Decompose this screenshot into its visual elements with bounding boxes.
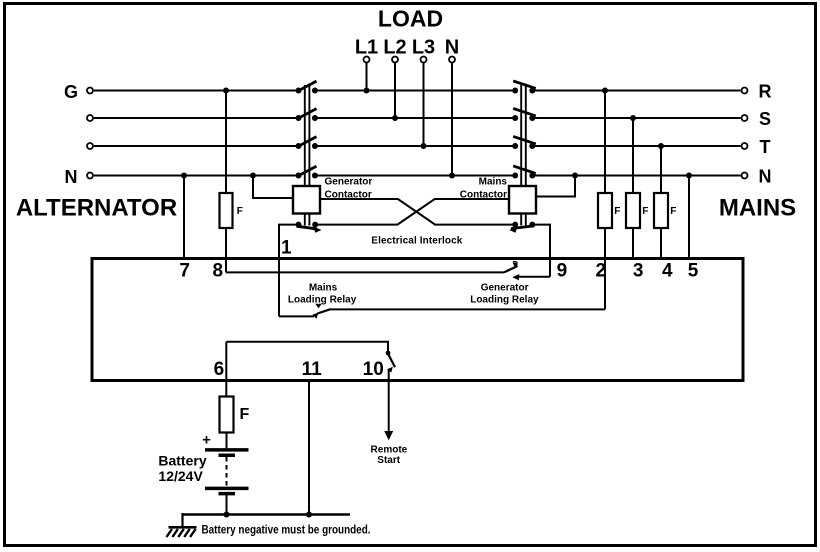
text Remote Start [371,444,408,466]
svg-text:Start: Start [377,455,400,466]
svg-text:T: T [760,137,771,157]
svg-text:Battery: Battery [158,452,206,468]
wire neutral line [94,175,741,177]
svg-text:L3: L3 [412,36,435,58]
terminal 9 wire from mains aux [532,225,567,282]
alternator terminal phase 3 [87,143,93,149]
label Mains Loading Relay [288,282,357,305]
svg-text:6: 6 [214,359,225,380]
svg-text:8: 8 [213,260,224,281]
svg-text:Generator: Generator [481,282,529,293]
svg-text:7: 7 [179,260,190,281]
wire phase T line [94,145,741,147]
svg-text:N: N [759,166,772,186]
label Mains Contactor [460,176,508,200]
node N alternator terminal [65,167,94,187]
svg-text:MAINS: MAINS [719,194,796,221]
label Electrical Interlock [371,235,462,246]
fuse F battery [220,397,250,433]
svg-text:+: + [202,432,211,449]
svg-text:Mains: Mains [479,176,508,187]
svg-text:F: F [670,206,676,217]
svg-text:2: 2 [596,260,607,281]
svg-text:Mains: Mains [309,282,338,293]
mains contactor linkage [521,84,526,226]
generator contactor coil [293,186,320,214]
generator contactor linkage [305,84,310,226]
wire neutral to mains coil [536,173,578,197]
label Battery 12/24V [158,452,206,484]
node S mains terminal [742,109,772,129]
svg-text:Loading Relay: Loading Relay [288,294,357,305]
svg-text:G: G [64,82,78,102]
svg-text:1: 1 [281,237,292,258]
svg-text:N: N [445,36,459,58]
svg-text:Remote: Remote [371,444,408,455]
svg-text:11: 11 [302,359,323,380]
fuse F terminal 2 [596,88,621,310]
node N mains terminal [742,166,772,186]
controller box [92,259,743,381]
node N load [445,36,459,178]
svg-text:N: N [65,167,78,187]
node T mains terminal [742,137,771,157]
node L3 [412,36,435,149]
label Generator Contactor [325,176,373,200]
label Generator Loading Relay [470,282,539,305]
ground symbol [167,513,197,537]
fuse F terminal 4 [654,143,676,281]
text ALTERNATOR [16,194,177,221]
svg-text:F: F [237,206,243,217]
svg-text:F: F [240,406,250,423]
alternator terminal phase 2 [87,115,93,121]
start contact wire terminal 6 to 10 [226,342,395,373]
node G alternator terminal [64,82,93,102]
svg-text:F: F [642,206,648,217]
mains contactor pole contacts [512,81,536,179]
svg-text:Electrical Interlock: Electrical Interlock [371,235,462,246]
node L2 [383,36,406,121]
mains contactor aux contact [509,222,535,233]
wire phase G-R top line [94,90,741,92]
svg-text:3: 3 [633,260,644,281]
interlock cross wire generator coil to mains aux [320,199,513,225]
node L1 [355,36,378,93]
generator contactor pole contacts [296,81,318,178]
generator contactor aux contact [296,222,322,233]
terminal 5 wire [686,173,699,282]
svg-text:Battery negative must be groun: Battery negative must be grounded. [202,523,371,537]
svg-text:R: R [759,81,772,101]
generator loading relay contact [226,262,550,281]
svg-text:S: S [759,109,771,129]
svg-text:9: 9 [557,260,568,281]
svg-text:12/24V: 12/24V [158,468,203,484]
interlock cross wire mains coil to generator aux [315,199,509,225]
wire neutral to generator coil [250,173,293,199]
battery B1 12/24V [202,432,248,515]
text battery negative must be grounded [202,523,371,537]
terminal 6 wire [214,342,227,397]
terminal 10 wire and remote start arrow [363,359,394,440]
terminal 1 wire from generator aux [279,225,299,317]
title LOAD [378,5,443,31]
svg-text:L2: L2 [383,36,406,58]
text MAINS [719,194,796,221]
svg-text:5: 5 [688,260,699,281]
svg-text:ALTERNATOR: ALTERNATOR [16,194,177,221]
fuse F terminal 8 [213,88,243,282]
wire phase S line [94,117,741,119]
svg-text:L1: L1 [355,36,378,58]
svg-text:LOAD: LOAD [378,5,443,31]
svg-text:Loading Relay: Loading Relay [470,294,539,305]
ground bus wire [182,512,350,518]
svg-text:Generator: Generator [325,176,373,187]
node R mains terminal [742,81,772,101]
svg-text:4: 4 [662,260,673,281]
svg-text:10: 10 [363,359,384,380]
fuse F terminal 3 [626,115,648,281]
terminal 11 wire [302,359,323,515]
mains loading relay contact [279,304,605,319]
mains contactor coil [509,186,536,214]
svg-text:F: F [614,206,620,217]
terminal 7 wire [179,173,190,282]
